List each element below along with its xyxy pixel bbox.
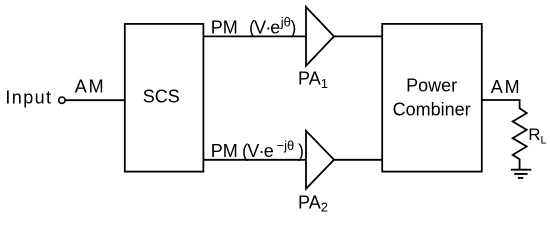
amplifier PA2 (triangle): [306, 131, 334, 189]
ground: [511, 170, 531, 178]
net label AM (output): [491, 77, 522, 97]
amplifier PA1 (triangle): [306, 7, 334, 66]
resistor RL (zigzag with leads): [513, 99, 527, 170]
svg-text:AM: AM: [491, 77, 522, 97]
svg-text:AM: AM: [75, 76, 106, 96]
svg-text:SCS: SCS: [143, 87, 180, 107]
label PA2: [298, 192, 328, 214]
label PA1: [298, 69, 328, 91]
input terminal (open circle): [59, 97, 65, 103]
wire: input terminal to SCS: [65, 99, 125, 101]
block U1 SCS: [125, 24, 204, 172]
svg-text:): ): [298, 141, 304, 161]
node Input label: [5, 88, 52, 108]
value label RL: [528, 125, 546, 147]
wire: SCS to PA1: [203, 35, 306, 37]
net label AM (input): [75, 76, 106, 96]
svg-text:Combiner: Combiner: [393, 100, 471, 120]
svg-text:jθ: jθ: [280, 15, 291, 30]
svg-text:PM: PM: [211, 17, 238, 37]
wire: SCS to PA2: [203, 159, 306, 161]
svg-text:Input: Input: [5, 88, 52, 108]
net label PM (V·e^jθ) top: [211, 15, 297, 38]
wire: Power Combiner output to load: [482, 99, 521, 101]
svg-text:PM: PM: [211, 141, 238, 161]
svg-text:(V·e: (V·e: [242, 141, 274, 161]
svg-text:): ): [290, 17, 296, 37]
net label PM (V·e^−jθ) bottom: [211, 138, 304, 161]
block U2 Power Combiner: [382, 24, 482, 172]
wire: PA2 to Power Combiner: [334, 159, 382, 161]
wire: PA1 to Power Combiner: [334, 35, 382, 37]
svg-text:−jθ: −jθ: [277, 138, 295, 153]
svg-text:Power: Power: [406, 76, 457, 96]
svg-text:(V·e: (V·e: [249, 17, 280, 37]
